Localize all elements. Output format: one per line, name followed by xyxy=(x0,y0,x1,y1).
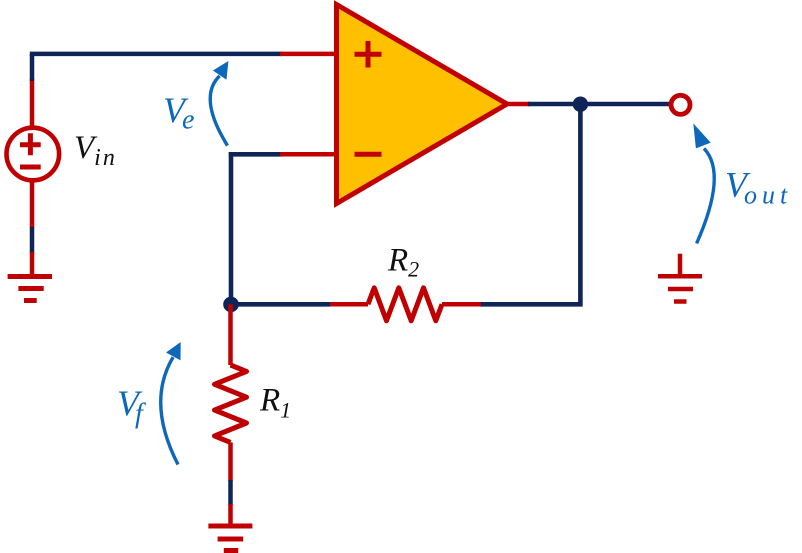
wire: Vin bottom navy segment xyxy=(30,227,35,253)
resistor R1 zigzag xyxy=(215,365,247,442)
wire: top horizontal navy to op-amp xyxy=(30,52,282,57)
voltage source Vin circle xyxy=(7,128,60,181)
wire: output navy to terminal xyxy=(528,102,669,107)
op-amp plus input marking xyxy=(355,41,382,68)
svg-text:R1: R1 xyxy=(259,383,291,423)
wire: minus input red lead xyxy=(280,152,336,157)
svg-text:Ve: Ve xyxy=(163,90,194,136)
op-amp minus input marking xyxy=(355,152,382,157)
arrow Vf head xyxy=(166,342,181,360)
wire: minus input horizontal navy xyxy=(229,152,282,157)
voltage source plus sign xyxy=(20,133,41,155)
svg-text:R2: R2 xyxy=(387,243,419,282)
arrow Ve arc xyxy=(210,76,227,146)
wire: Vin top vertical navy segment to corner xyxy=(30,54,35,81)
wire: Vin top vertical red segment xyxy=(30,79,35,127)
node A: feedback junction dot xyxy=(223,297,239,313)
wire: feedback navy from node B down, corner, left to R2 xyxy=(480,102,580,304)
svg-text:Vout: Vout xyxy=(725,165,792,210)
op-amp U1 triangle xyxy=(337,5,508,204)
svg-text:Vin: Vin xyxy=(74,130,117,171)
resistor R2 zigzag xyxy=(368,288,442,321)
voltage source minus sign xyxy=(20,165,41,170)
ground (R1) xyxy=(208,526,252,551)
arrow Vf arc xyxy=(161,357,178,464)
ground (output reference) xyxy=(658,276,702,301)
wire: R1 bottom red lead xyxy=(228,442,233,481)
wire: Vin bottom red segment to ground xyxy=(30,252,35,276)
wire: R1 bottom navy segment xyxy=(228,480,233,505)
wire: R2 right red lead xyxy=(442,302,481,307)
arrow Vout head xyxy=(693,123,710,148)
wire: Vin bottom red segment xyxy=(30,181,35,228)
wire: vertical navy from minus input down to node A xyxy=(229,152,234,304)
wire: R1 bottom red segment to ground xyxy=(228,504,233,526)
arrow Vout arc xyxy=(697,148,715,243)
wire: feedback horizontal navy left part to node A xyxy=(231,302,330,307)
ground (Vin) xyxy=(8,277,52,301)
svg-text:Vf: Vf xyxy=(117,383,146,430)
output terminal (open circle) xyxy=(671,95,690,114)
arrow Ve head xyxy=(213,61,229,80)
node B: output junction dot xyxy=(573,97,588,112)
wire: red lead into op-amp + input xyxy=(280,52,336,57)
wire: R1 top red lead xyxy=(228,304,233,365)
wire: output ground stem xyxy=(678,254,683,276)
wire: op-amp output red lead xyxy=(507,102,530,107)
wire: R2 left red lead xyxy=(329,302,368,307)
